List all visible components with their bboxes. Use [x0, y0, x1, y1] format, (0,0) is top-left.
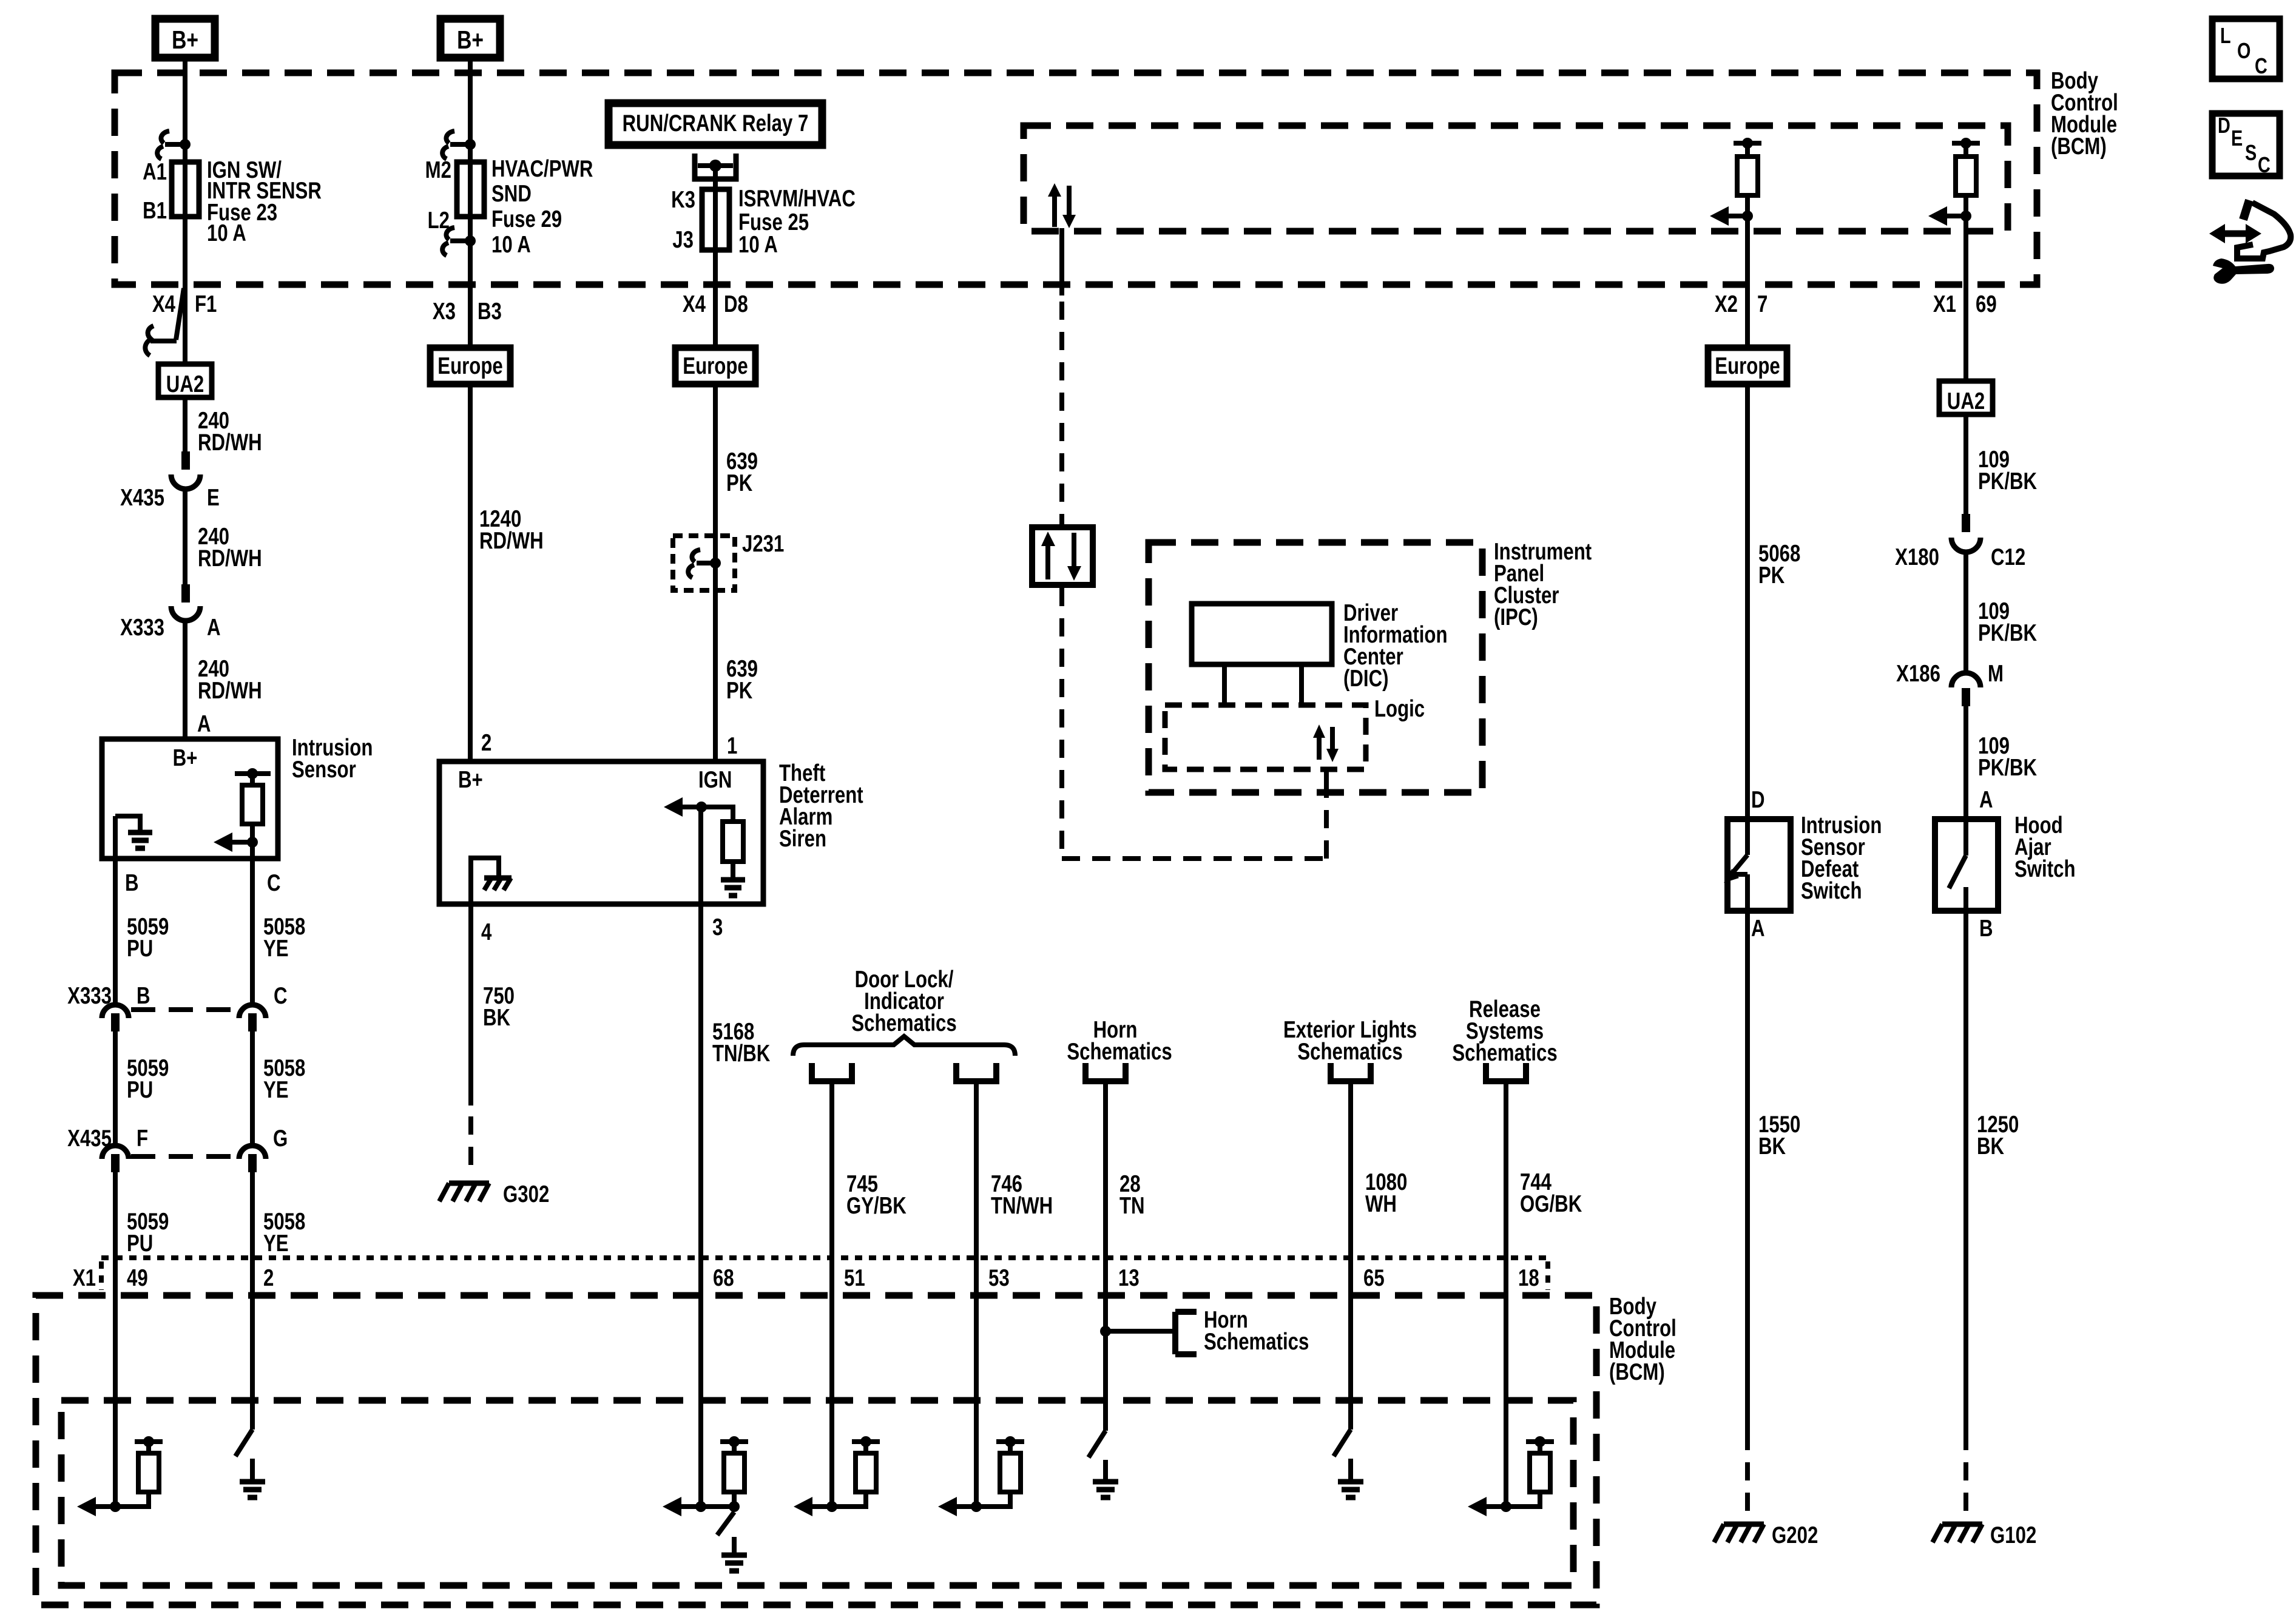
wire 5068 PK [1747, 384, 1800, 819]
connector X333 row pins B C [67, 983, 287, 1031]
LOC legend box [2212, 19, 2280, 79]
svg-text:Schematics: Schematics [1204, 1329, 1309, 1355]
svg-text:3: 3 [712, 914, 723, 940]
svg-text:B+: B+ [172, 27, 198, 55]
option box Europe col2 [430, 348, 510, 384]
svg-text:B: B [137, 983, 150, 1009]
svg-text:B: B [1979, 916, 1993, 942]
svg-text:2: 2 [263, 1265, 274, 1291]
theft deterrent alarm siren box [439, 760, 863, 904]
svg-text:X333: X333 [67, 983, 112, 1009]
BCM driver circuit X1 pin 69 [1928, 138, 1980, 226]
wire 5059 PU middle [115, 1031, 169, 1148]
svg-text:TN/WH: TN/WH [991, 1193, 1053, 1219]
BCM switch to ground pin 68 [717, 1512, 747, 1571]
svg-text:TN/BK: TN/BK [712, 1041, 771, 1067]
svg-text:YE: YE [263, 1077, 289, 1103]
driver information center box [1192, 604, 1332, 705]
svg-text:PU: PU [127, 1077, 153, 1103]
wire 750 BK to G302 [471, 904, 515, 1177]
svg-text:WH: WH [1365, 1191, 1397, 1217]
hand and wrench service icon [2209, 200, 2291, 284]
svg-text:X180: X180 [1895, 544, 1939, 570]
IPC label [1494, 539, 1592, 630]
wire 5058 YE middle [252, 1031, 305, 1148]
svg-text:J231: J231 [742, 531, 784, 557]
intrusion sensor internal ground [115, 816, 152, 848]
svg-text:2: 2 [481, 730, 491, 756]
ground G202 [1714, 1522, 1818, 1548]
svg-text:49: 49 [127, 1265, 148, 1291]
relay contact terminal [695, 154, 736, 250]
brace for door lock wires [793, 1036, 1015, 1056]
BCM driver circuit pin 49 [77, 1436, 163, 1516]
svg-text:Switch: Switch [1801, 878, 1862, 904]
svg-text:B3: B3 [478, 299, 502, 325]
svg-text:X4: X4 [683, 291, 706, 317]
svg-text:D8: D8 [724, 291, 748, 317]
fuse terminal clip A1 [157, 131, 191, 159]
svg-text:UA2: UA2 [1947, 388, 1985, 414]
RUN/CRANK Relay 7 title box [609, 103, 822, 145]
fuse 29 HVAC/PWR SND [425, 156, 593, 258]
option code UA2 box right [1939, 381, 1993, 414]
svg-text:PK: PK [726, 470, 753, 496]
off-page connector wire 53 [956, 1063, 1053, 1507]
BCM top dashed box [115, 73, 2037, 285]
label Body Control Module (BCM) top [2051, 68, 2118, 160]
BCM switch to ground pin 65 [1334, 1430, 1363, 1497]
intrusion sensor pin C wire 5058 YE [252, 842, 305, 1005]
svg-text:OG/BK: OG/BK [1520, 1191, 1582, 1217]
svg-text:RD/WH: RD/WH [198, 430, 262, 456]
wire col1 fuse to UA2 [183, 217, 187, 363]
svg-text:RD/WH: RD/WH [198, 545, 262, 572]
svg-text:A: A [207, 615, 221, 641]
power feed B+ terminal 2 [441, 19, 500, 58]
fuse terminal clip L2 [442, 228, 476, 255]
BCM driver circuit pin 68 [663, 1436, 748, 1516]
svg-text:(DIC): (DIC) [1343, 666, 1388, 692]
svg-text:BK: BK [1758, 1133, 1786, 1160]
ground G102 [1933, 1522, 2036, 1548]
svg-text:YE: YE [263, 1230, 289, 1257]
svg-text:Schematics: Schematics [1067, 1039, 1172, 1065]
svg-text:A: A [1751, 916, 1765, 942]
svg-text:PU: PU [127, 1230, 153, 1257]
Exterior Lights Schematics label [1283, 1017, 1417, 1065]
svg-text:D: D [2218, 113, 2230, 138]
intrusion sensor pin B wire 5059 PU [115, 816, 169, 1005]
svg-text:HVAC/PWR: HVAC/PWR [491, 156, 593, 182]
fuse terminal clip M2 [442, 131, 476, 159]
logic serial data arrows [1313, 724, 1339, 762]
svg-text:F: F [137, 1126, 148, 1152]
option code UA2 box col1 [158, 364, 212, 397]
svg-text:10 A: 10 A [491, 232, 531, 258]
svg-text:YE: YE [263, 936, 289, 962]
wire 109 PK/BK middle [1966, 551, 2037, 674]
svg-text:O: O [2237, 38, 2250, 63]
svg-text:G302: G302 [503, 1181, 549, 1207]
Release Systems Schematics label [1452, 996, 1557, 1066]
svg-text:X333: X333 [120, 615, 164, 641]
svg-text:Logic: Logic [1374, 696, 1425, 722]
svg-text:(IPC): (IPC) [1494, 604, 1538, 630]
svg-text:53: 53 [988, 1265, 1010, 1291]
splice J231 [673, 531, 784, 590]
wire pin 2 into BCM [250, 1258, 255, 1430]
svg-text:X1: X1 [73, 1265, 96, 1291]
svg-text:G202: G202 [1772, 1522, 1818, 1548]
BCM switch to ground pin 13 [1089, 1431, 1118, 1497]
DIC label [1343, 600, 1448, 692]
svg-text:E: E [207, 485, 220, 511]
intrusion sensor box [102, 735, 373, 859]
fuse 23 IGN SW/INTR SENSR [143, 157, 322, 246]
wire col3 fuse to Europe [683, 250, 748, 348]
intrusion sensor defeat switch [1724, 812, 1882, 911]
siren internal IGN arrow resistor ground [664, 797, 745, 896]
svg-text:F1: F1 [195, 291, 217, 317]
svg-text:(BCM): (BCM) [1609, 1359, 1665, 1385]
svg-text:PK/BK: PK/BK [1978, 620, 2037, 646]
svg-text:J3: J3 [672, 227, 694, 253]
svg-text:X2: X2 [1715, 291, 1738, 317]
wire pin 49 into BCM [113, 1258, 118, 1507]
Door Lock Indicator Schematics label [851, 967, 956, 1036]
serial data arrows in BCM [1048, 183, 1076, 228]
svg-text:B1: B1 [143, 198, 167, 224]
logic dashed box [1165, 705, 1366, 769]
ground G302 [439, 1181, 549, 1207]
svg-text:10 A: 10 A [207, 220, 246, 246]
svg-text:S: S [2245, 140, 2257, 165]
svg-text:X1: X1 [1933, 291, 1956, 317]
wire 240 RD/WH lower [185, 619, 262, 739]
svg-text:C: C [2255, 53, 2267, 78]
svg-text:ISRVM/HVAC: ISRVM/HVAC [738, 186, 856, 212]
svg-text:13: 13 [1118, 1265, 1140, 1291]
BCM driver circuit X2 pin 7 [1710, 138, 1761, 226]
svg-text:B+: B+ [458, 767, 483, 793]
BCM switch to ground pin 2 [235, 1430, 265, 1497]
wire 109 PK/BK upper [1966, 414, 2037, 515]
wire X1-69 to UA2 [1933, 216, 1997, 381]
wire 639 PK upper [715, 384, 758, 761]
svg-text:C: C [274, 983, 288, 1009]
svg-text:BK: BK [483, 1005, 510, 1031]
serial data wire gateway to IPC logic [1062, 588, 1326, 859]
wire 1250 BK to G102 [1966, 911, 2019, 1520]
svg-text:Schematics: Schematics [1452, 1040, 1557, 1066]
svg-text:SND: SND [491, 181, 532, 207]
label Body Control Module (BCM) bottom [1609, 1294, 1676, 1385]
connector X435 row pins F G [67, 1126, 288, 1172]
svg-text:68: 68 [713, 1265, 734, 1291]
option box Europe col3 [675, 348, 755, 384]
svg-text:PU: PU [127, 936, 153, 962]
svg-text:Schematics: Schematics [851, 1010, 956, 1036]
svg-text:RUN/CRANK Relay 7: RUN/CRANK Relay 7 [623, 110, 809, 137]
svg-text:E: E [2231, 126, 2243, 150]
wire siren pin 3 5168 TN/BK [701, 807, 771, 1507]
svg-text:IGN: IGN [698, 767, 732, 793]
svg-text:Switch: Switch [2014, 856, 2075, 882]
svg-text:X186: X186 [1896, 661, 1940, 687]
svg-text:69: 69 [1976, 291, 1997, 317]
wire 240 RD/WH middle [185, 488, 262, 586]
svg-text:GY/BK: GY/BK [846, 1193, 907, 1219]
wire 109 PK/BK lower [1966, 706, 2037, 819]
intrusion sensor internal resistor and arrow [214, 768, 271, 859]
siren internal B+ chassis ground [471, 858, 512, 890]
wire 639 PK lower [715, 590, 758, 761]
svg-text:X435: X435 [120, 485, 164, 511]
connector X1 dotted row [73, 1258, 1548, 1291]
BCM driver circuit pin 51 [794, 1436, 880, 1516]
svg-text:PK/BK: PK/BK [1978, 468, 2037, 495]
svg-text:BK: BK [1977, 1133, 2004, 1160]
wire 5059 PU lower [115, 1172, 169, 1258]
svg-text:UA2: UA2 [166, 371, 204, 397]
Horn Schematics label top [1067, 1017, 1172, 1065]
svg-text:G: G [273, 1126, 288, 1152]
svg-text:C12: C12 [1991, 544, 2025, 570]
svg-text:18: 18 [1518, 1265, 1539, 1291]
wire 240 RD/WH upper [185, 397, 262, 456]
hood ajar switch [1935, 812, 2075, 911]
svg-text:PK: PK [1758, 562, 1785, 589]
svg-text:PK/BK: PK/BK [1978, 755, 2037, 781]
svg-text:7: 7 [1757, 291, 1768, 317]
svg-text:A: A [1979, 787, 1993, 813]
off-page connector wire 13 [1086, 1063, 1145, 1431]
BCM bottom outer dashed box [36, 1295, 1596, 1605]
horn schematics branch tab [1100, 1307, 1309, 1355]
svg-text:B+: B+ [173, 745, 198, 771]
svg-text:A: A [197, 711, 211, 737]
svg-text:B+: B+ [457, 27, 484, 55]
svg-text:4: 4 [481, 919, 492, 945]
svg-text:B: B [125, 870, 139, 896]
connector X4 F1 labels and clip [145, 288, 217, 356]
BCM driver circuit pin 53 [938, 1436, 1024, 1516]
svg-text:M: M [1988, 661, 2004, 687]
option box Europe X2 [1708, 348, 1787, 384]
off-page connector wire 65 [1331, 1063, 1407, 1430]
wire col2 B+ to fuse [468, 58, 473, 217]
inner BCM dashed box [1024, 126, 2008, 231]
serial data wire BCM to gateway [1059, 228, 1064, 524]
svg-text:C: C [2258, 152, 2271, 177]
power feed B+ terminal 1 [155, 19, 215, 58]
wire 1550 BK to G202 [1747, 911, 1800, 1520]
off-page connector wire 51 [812, 1063, 907, 1507]
inline connector X180 pin C12 [1895, 514, 2025, 570]
svg-text:TN: TN [1119, 1193, 1145, 1219]
serial data gateway box [1032, 527, 1093, 585]
svg-text:D: D [1751, 787, 1765, 813]
svg-text:Europe: Europe [437, 353, 502, 379]
svg-text:65: 65 [1363, 1265, 1385, 1291]
BCM bottom inner dashed box [61, 1400, 1573, 1585]
svg-text:Fuse 29: Fuse 29 [491, 206, 562, 232]
svg-text:10 A: 10 A [738, 232, 778, 258]
svg-text:X3: X3 [433, 299, 456, 325]
svg-text:(BCM): (BCM) [2051, 133, 2107, 160]
svg-text:A1: A1 [143, 159, 167, 185]
svg-text:RD/WH: RD/WH [198, 678, 262, 704]
svg-text:K3: K3 [671, 187, 695, 213]
svg-text:Sensor: Sensor [292, 757, 356, 783]
wire siren pin 2 through box [468, 856, 473, 904]
wire 5058 YE lower [252, 1172, 305, 1258]
svg-text:C: C [267, 870, 281, 896]
svg-text:L: L [2220, 23, 2231, 48]
off-page connector wire 18 [1486, 1063, 1582, 1507]
svg-text:1: 1 [727, 733, 737, 759]
svg-text:Europe: Europe [1715, 353, 1780, 379]
svg-text:Europe: Europe [683, 353, 748, 379]
BCM driver circuit pin 18 [1468, 1436, 1554, 1516]
instrument panel cluster dashed box [1149, 542, 1482, 792]
svg-text:Schematics: Schematics [1297, 1039, 1402, 1065]
fuse 25 ISRVM/HVAC [671, 186, 856, 258]
DESC legend box [2212, 113, 2280, 177]
svg-text:X4: X4 [152, 291, 175, 317]
svg-text:RD/WH: RD/WH [479, 528, 544, 554]
svg-text:M2: M2 [425, 157, 451, 183]
inline connector X186 pin M [1896, 661, 2004, 706]
inline connector X435 pin E [120, 451, 220, 511]
wire X2-7 to Europe [1715, 216, 1768, 348]
svg-text:51: 51 [844, 1265, 865, 1291]
svg-text:Siren: Siren [779, 826, 826, 852]
wire 1240 RD/WH [470, 384, 544, 761]
svg-text:G102: G102 [1990, 1522, 2036, 1548]
wire col1 B+ to fuse [183, 58, 187, 217]
svg-text:PK: PK [726, 678, 753, 704]
wire col2 fuse to Europe [433, 217, 502, 348]
inline connector X333 pin A [120, 584, 220, 641]
